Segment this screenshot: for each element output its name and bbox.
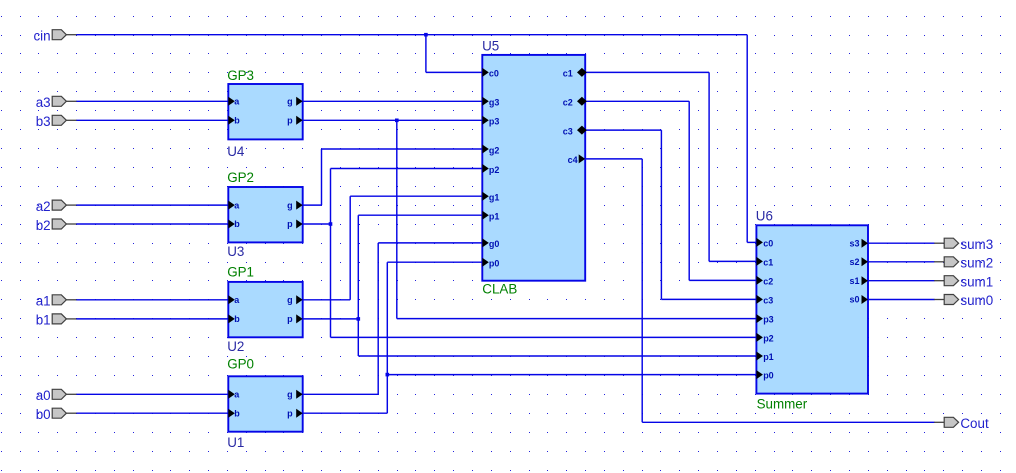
pin U6.p2 (756, 333, 773, 343)
wire net p1 from GP1.p (303, 318, 359, 320)
svg-text:c2: c2 (563, 98, 573, 108)
wire net c3 from CLAB (585, 129, 661, 131)
svg-text:p2: p2 (763, 333, 774, 343)
wire net a3 (76, 100, 228, 102)
svg-text:a2: a2 (36, 199, 51, 214)
svg-text:p2: p2 (489, 165, 500, 175)
wire net g3 (GP3.g to CLAB.g3) (303, 100, 483, 102)
junction p1 (357, 317, 361, 321)
svg-text:U2: U2 (227, 339, 244, 354)
input connector a3 (36, 95, 77, 110)
svg-text:a1: a1 (36, 294, 51, 309)
input connector a2 (36, 199, 77, 214)
svg-text:GP0: GP0 (227, 356, 254, 371)
pin U5.p0 (482, 258, 499, 269)
svg-text:Cout: Cout (960, 416, 989, 431)
wire net p2 vertical (330, 169, 332, 338)
svg-text:c3: c3 (563, 126, 573, 136)
pin U3.p (287, 219, 303, 229)
svg-text:b3: b3 (36, 114, 51, 129)
svg-text:s3: s3 (849, 238, 859, 248)
wire net g0 from GP0.g (303, 393, 379, 395)
pin U2.a (228, 295, 240, 305)
svg-text:g: g (287, 97, 293, 107)
svg-text:g: g (287, 295, 293, 305)
svg-text:p: p (287, 116, 293, 126)
pin U3.a (228, 200, 240, 210)
wire net p1 to CLAB p1 (358, 214, 482, 216)
svg-text:c1: c1 (563, 69, 573, 79)
wire net a2 (76, 204, 228, 206)
pin U5.g0 (482, 238, 499, 249)
svg-text:c4: c4 (568, 155, 578, 165)
pin U3.g (287, 200, 303, 210)
wire net p3 (GP3.p to CLAB.p3) (303, 119, 483, 121)
wire net c3 down (660, 130, 662, 299)
wire net b2 (76, 223, 228, 225)
wire net g2 to CLAB g2 (322, 148, 483, 150)
svg-text:sum0: sum0 (960, 293, 993, 308)
svg-text:b: b (234, 116, 240, 126)
wire net c1 down (708, 72, 710, 261)
junction p2 (329, 222, 333, 226)
pin U6.c0 (756, 238, 773, 248)
wire net c1 from CLAB (585, 71, 709, 73)
wire net g1 up (349, 196, 351, 300)
svg-text:b2: b2 (36, 218, 51, 233)
wire net c4 to Cout (642, 421, 934, 423)
wire net c1 to Summer c1 (709, 260, 756, 262)
block U5 (CLAB) body (482, 55, 585, 281)
wire net g2 up (321, 149, 323, 205)
pin U4.g (287, 97, 303, 107)
svg-text:b1: b1 (36, 313, 51, 328)
output connector Cout (934, 416, 989, 431)
block U4 (GP3) body (228, 84, 302, 139)
wire net c3 to Summer c3 (661, 298, 756, 300)
pin U6.s2 (849, 257, 868, 267)
svg-text:g0: g0 (489, 239, 500, 249)
wire net g0 to CLAB g0 (378, 242, 482, 244)
svg-text:g1: g1 (489, 193, 500, 203)
svg-text:c1: c1 (763, 257, 773, 267)
svg-text:p1: p1 (763, 352, 774, 362)
svg-text:CLAB: CLAB (482, 282, 517, 297)
wire net c2 from CLAB (585, 100, 689, 102)
wire net c4 down (641, 159, 643, 422)
wire net b3 (76, 119, 228, 121)
pin U6.p1 (756, 352, 773, 362)
wire net p2 to CLAB p2 (331, 168, 483, 170)
svg-text:s1: s1 (849, 276, 859, 286)
svg-text:b: b (234, 219, 240, 229)
wire net g0 up (377, 243, 379, 394)
svg-text:s2: s2 (849, 257, 859, 267)
svg-text:sum2: sum2 (960, 255, 993, 270)
svg-text:cin: cin (33, 29, 50, 44)
wire net a0 (76, 393, 228, 395)
wire net cin horizontal (76, 34, 747, 36)
svg-text:c2: c2 (763, 276, 773, 286)
wire net a1 (76, 299, 228, 301)
pin U5.c4 (568, 154, 586, 165)
pin U5.g3 (482, 97, 499, 108)
pin U3.b (228, 219, 240, 229)
svg-text:U4: U4 (227, 144, 245, 159)
wire net c2 down (688, 101, 690, 280)
pin U6.s3 (849, 238, 868, 248)
input connector b0 (36, 407, 77, 422)
pin U2.p (287, 314, 303, 324)
pin U6.p3 (756, 314, 773, 324)
svg-text:g: g (287, 390, 293, 400)
wire net c2 to Summer c2 (689, 279, 756, 281)
junction cin branch (424, 33, 428, 37)
wire net b0 (76, 412, 228, 414)
input connector a0 (36, 388, 77, 403)
block U3 (GP2) body (228, 187, 302, 242)
wire net p0 to CLAB p0 (387, 261, 482, 263)
svg-text:g2: g2 (489, 145, 500, 155)
svg-text:b0: b0 (36, 407, 51, 422)
junction p3 (395, 119, 399, 123)
svg-text:g: g (287, 200, 293, 210)
svg-text:U6: U6 (756, 208, 773, 223)
input connector cin (33, 29, 76, 44)
pin U5.p3 (482, 116, 499, 127)
pin U6.c3 (756, 295, 773, 305)
pin U5.c2 (563, 97, 587, 108)
input connector b2 (36, 218, 77, 233)
svg-text:g3: g3 (489, 98, 500, 108)
wire net sum0 (868, 299, 935, 301)
svg-text:p3: p3 (489, 117, 500, 127)
wire net p2 from GP2.p (303, 223, 331, 225)
input connector b1 (36, 313, 77, 328)
pin U5.g1 (482, 192, 499, 203)
svg-text:sum1: sum1 (960, 274, 993, 289)
pin U6.s1 (849, 276, 868, 286)
svg-text:U5: U5 (482, 38, 499, 53)
pin U4.b (228, 116, 240, 126)
svg-text:p0: p0 (489, 259, 500, 269)
wire net g2 from GP2.g (303, 204, 322, 206)
svg-text:U3: U3 (227, 244, 244, 259)
output connector sum2 (934, 255, 993, 270)
pin U2.b (228, 314, 240, 324)
pin U1.p (287, 408, 303, 418)
wire net cin down to Summer c0 (746, 35, 748, 243)
wire net sum2 (868, 261, 935, 263)
pin U5.p2 (482, 164, 499, 175)
pin U6.c1 (756, 257, 773, 267)
block U2 (GP1) body (228, 282, 302, 337)
junction p0 (386, 373, 390, 377)
svg-text:a0: a0 (36, 388, 51, 403)
svg-text:p: p (287, 408, 293, 418)
wire net p0 to Summer p0 (387, 374, 756, 376)
svg-text:p1: p1 (489, 212, 500, 222)
output connector sum1 (934, 274, 993, 289)
wire net p2 to Summer p2 (331, 336, 757, 338)
pin U6.c2 (756, 276, 773, 286)
svg-text:c0: c0 (489, 69, 499, 79)
block U6 (Summer) body (756, 225, 868, 393)
svg-text:c3: c3 (763, 295, 773, 305)
output connector sum0 (934, 293, 993, 308)
pin U5.g2 (482, 145, 499, 156)
pin U5.c1 (563, 68, 587, 79)
svg-text:b: b (234, 314, 240, 324)
svg-text:b: b (234, 408, 240, 418)
pin U5.c3 (563, 126, 587, 137)
svg-text:U1: U1 (227, 435, 244, 450)
svg-text:Summer: Summer (757, 397, 808, 412)
wire net sum1 (868, 280, 935, 282)
svg-text:p: p (287, 219, 293, 229)
wire net c4 from CLAB (585, 158, 642, 160)
wire net b1 (76, 318, 228, 320)
svg-text:GP1: GP1 (227, 264, 254, 279)
svg-text:p3: p3 (763, 315, 774, 325)
svg-text:sum3: sum3 (960, 237, 993, 252)
svg-text:s0: s0 (849, 295, 859, 305)
wire net cin into CLAB c0 (426, 71, 482, 73)
pin U6.p0 (756, 370, 773, 380)
output connector sum3 (934, 237, 993, 252)
pin U5.c0 (482, 68, 499, 79)
wire net p3 to Summer p3 (397, 318, 757, 320)
svg-text:p0: p0 (763, 371, 774, 381)
input connector b3 (36, 114, 77, 129)
pin U2.g (287, 295, 303, 305)
wire net cin into Summer c0 (747, 241, 756, 243)
pin U6.s0 (849, 295, 868, 305)
wire net p1 vertical (357, 215, 359, 356)
wire net cin branch down to CLAB c0 (425, 35, 427, 73)
wire net sum3 (868, 242, 935, 244)
input connector a1 (36, 294, 77, 309)
svg-text:p: p (287, 314, 293, 324)
pin U4.p (287, 116, 303, 126)
pin U5.p1 (482, 211, 499, 222)
wire net p1 to Summer p1 (358, 355, 756, 357)
pin U1.b (228, 408, 240, 418)
wire net p0 from GP0.p (303, 412, 388, 414)
block U1 (GP0) body (228, 376, 302, 431)
pin U1.g (287, 390, 303, 400)
svg-text:GP2: GP2 (227, 170, 254, 185)
pin U1.a (228, 390, 240, 400)
svg-text:a3: a3 (36, 95, 51, 110)
pin U4.a (228, 97, 240, 107)
wire net g1 to CLAB g1 (350, 195, 482, 197)
wire net p0 vertical (386, 262, 388, 413)
wire net p3 down (396, 120, 398, 318)
svg-text:GP3: GP3 (227, 68, 254, 83)
wire net g1 from GP1.g (303, 299, 351, 301)
svg-text:c0: c0 (763, 238, 773, 248)
